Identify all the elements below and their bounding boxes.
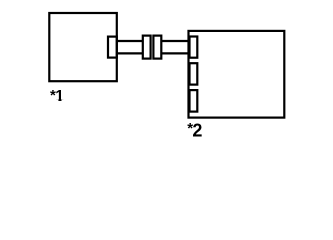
tab 3 on *2 <box>190 90 198 112</box>
wire W2 top line <box>161 40 188 42</box>
label *1 <box>50 87 65 105</box>
component box *1 <box>49 13 117 81</box>
tab 2 on *2 <box>190 63 198 84</box>
component box *2 <box>189 31 285 118</box>
connector tab on *1 <box>108 37 117 58</box>
svg-text:2: 2 <box>192 121 202 141</box>
wire W2 bottom line <box>161 52 188 54</box>
wire W1 bottom line <box>117 52 143 54</box>
label *2 <box>187 120 202 140</box>
wire-to-wire connector half A <box>143 36 151 59</box>
wire W1 top line <box>117 40 143 42</box>
wire-to-wire connector half B <box>153 36 161 59</box>
tab 1 on *2 <box>190 37 198 58</box>
svg-text:1: 1 <box>55 88 64 105</box>
